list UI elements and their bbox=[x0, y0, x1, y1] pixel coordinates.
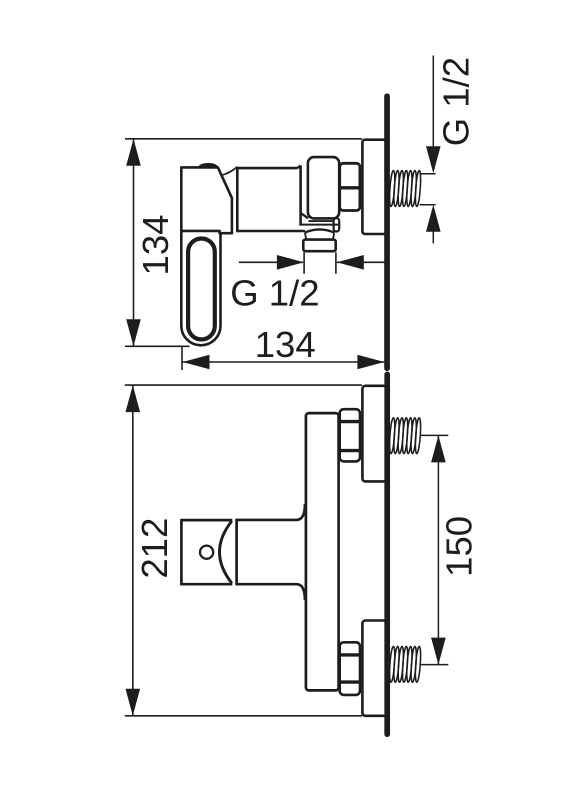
svg-text:150: 150 bbox=[438, 516, 479, 577]
svg-text:G 1/2: G 1/2 bbox=[436, 57, 477, 146]
svg-text:134: 134 bbox=[135, 215, 176, 276]
svg-text:212: 212 bbox=[134, 518, 175, 579]
svg-text:134: 134 bbox=[255, 324, 316, 365]
svg-text:G 1/2: G 1/2 bbox=[230, 272, 319, 313]
